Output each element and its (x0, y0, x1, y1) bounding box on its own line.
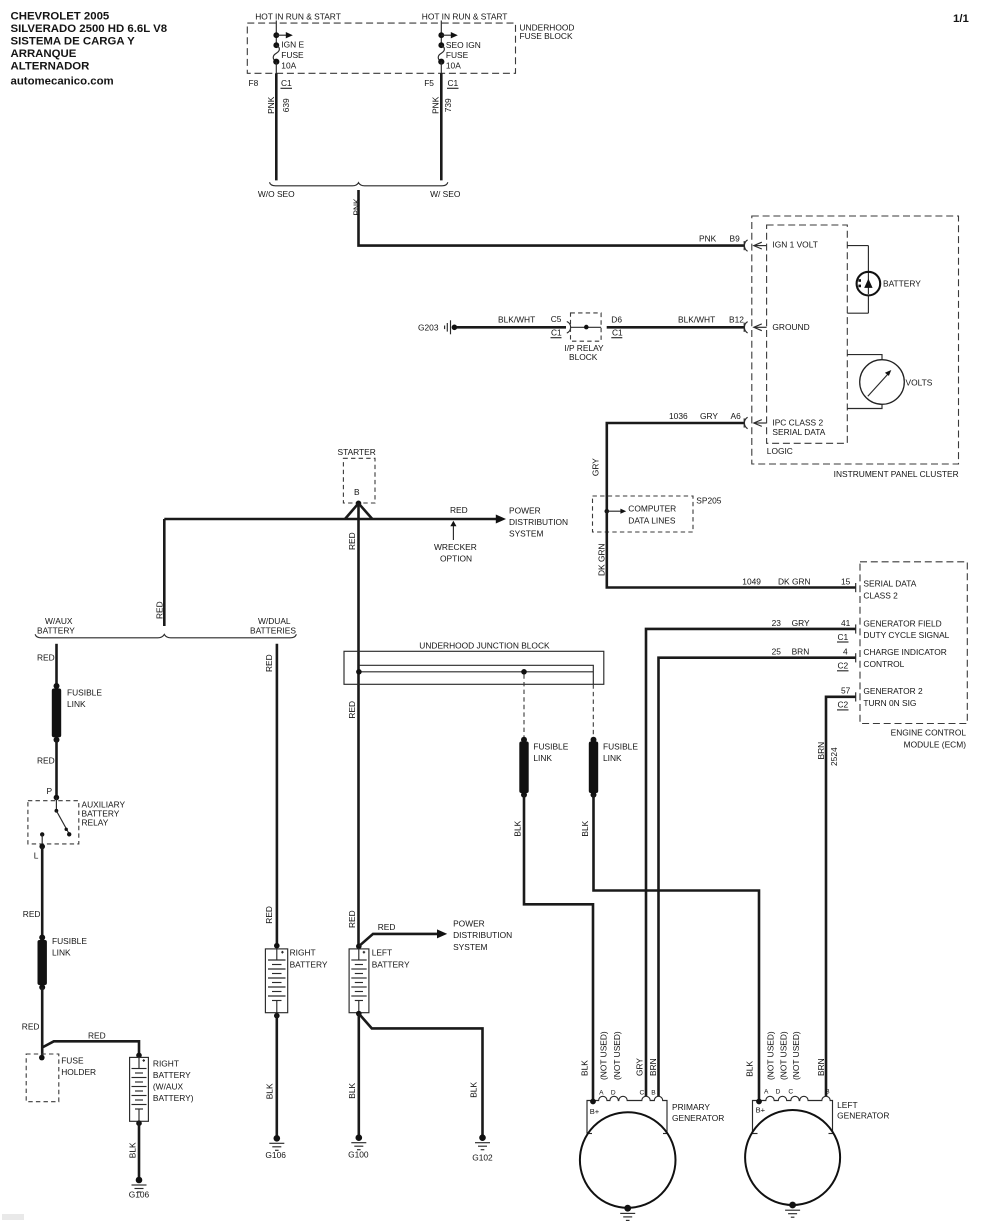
ECM pin 57 GENERATOR 2 TURN ON SIG (863, 686, 923, 708)
svg-text:DATA LINES: DATA LINES (628, 516, 676, 526)
svg-text:D6: D6 (611, 314, 622, 324)
svg-text:FUSIBLE: FUSIBLE (603, 742, 638, 752)
svg-text:B+: B+ (590, 1107, 600, 1116)
svg-text:FUSIBLE: FUSIBLE (533, 742, 568, 752)
svg-text:SISTEMA DE CARGA Y: SISTEMA DE CARGA Y (11, 36, 136, 48)
wire RED left branch down (37, 644, 57, 686)
svg-text:VOLTS: VOLTS (906, 378, 933, 388)
wrecker option callout (434, 521, 477, 564)
svg-text:G106: G106 (265, 1150, 286, 1160)
svg-text:automecanico.com: automecanico.com (11, 76, 114, 88)
svg-text:G106: G106 (129, 1190, 150, 1200)
svg-text:PRIMARY: PRIMARY (672, 1102, 710, 1112)
svg-text:RED: RED (88, 1031, 106, 1041)
svg-text:RELAY: RELAY (82, 818, 109, 828)
svg-text:G100: G100 (348, 1150, 369, 1160)
ECM pin 15 SERIAL DATA CLASS 2 (863, 579, 916, 601)
svg-text:C1: C1 (612, 327, 623, 337)
svg-text:MODULE (ECM): MODULE (ECM) (904, 740, 967, 750)
connector F8 C1 (249, 78, 293, 88)
svg-text:BRN: BRN (792, 647, 810, 657)
ground G106 (right column) (265, 1135, 286, 1160)
svg-text:FUSE: FUSE (281, 50, 304, 60)
left generator wire labels (766, 1031, 827, 1080)
pin IPC CLASS 2 SERIAL DATA (772, 418, 825, 437)
options bracket W/O SEO | W/ SEO (258, 182, 461, 199)
svg-text:C1: C1 (448, 78, 459, 88)
svg-text:BATTERY: BATTERY (883, 279, 921, 289)
svg-text:B: B (825, 1088, 830, 1095)
ground G102 (472, 1134, 493, 1162)
svg-text:C2: C2 (838, 700, 849, 710)
svg-text:LINK: LINK (533, 753, 552, 763)
svg-text:W/O SEO: W/O SEO (258, 189, 295, 199)
svg-text:FUSE: FUSE (61, 1056, 84, 1066)
options bracket W/AUX BATTERY | W/DUAL BATTERIES (35, 616, 296, 638)
right battery (w/aux battery) (130, 1053, 194, 1122)
svg-text:(NOT USED): (NOT USED) (791, 1031, 801, 1080)
svg-text:RED: RED (37, 653, 55, 663)
ground G100 (348, 1134, 369, 1159)
svg-text:BRN: BRN (816, 742, 826, 760)
wire RED relay to fusible link 2 (23, 847, 42, 938)
svg-text:RIGHT: RIGHT (153, 1059, 179, 1069)
svg-text:BATTERY: BATTERY (372, 959, 410, 969)
svg-text:B12: B12 (729, 315, 744, 325)
svg-text:GRY: GRY (792, 618, 810, 628)
auxiliary battery relay (28, 798, 126, 847)
wire 23 GRY to ECM pin 41 C1 (646, 618, 856, 1097)
svg-text:BATTERY: BATTERY (153, 1070, 191, 1080)
svg-text:BATTERY: BATTERY (37, 626, 75, 636)
svg-text:(NOT USED): (NOT USED) (778, 1031, 788, 1080)
svg-text:RED: RED (37, 756, 55, 766)
svg-text:LEFT: LEFT (372, 948, 392, 958)
dashed feed to fusible link 3 (523, 674, 525, 737)
svg-text:SYSTEM: SYSTEM (453, 942, 487, 952)
svg-text:ALTERNADOR: ALTERNADOR (11, 61, 90, 73)
ECM box (dashed) (860, 562, 967, 750)
svg-text:CLASS 2: CLASS 2 (863, 591, 898, 601)
wire RED starter down (center column) (347, 503, 359, 946)
svg-text:B9: B9 (730, 234, 741, 244)
svg-text:BLOCK: BLOCK (569, 352, 598, 362)
svg-text:23: 23 (772, 618, 782, 628)
svg-text:COMPUTER: COMPUTER (628, 504, 676, 514)
svg-text:PNK: PNK (351, 198, 361, 216)
wire BLK fusible link 3 to primary generator (512, 795, 593, 1102)
svg-text:639: 639 (281, 98, 291, 112)
svg-text:(NOT USED): (NOT USED) (766, 1031, 776, 1080)
primary generator case ground (620, 1205, 635, 1221)
svg-text:PNK: PNK (699, 234, 717, 244)
svg-text:C2: C2 (838, 661, 849, 671)
svg-text:CONTROL: CONTROL (863, 659, 904, 669)
svg-text:SILVERADO 2500 HD 6.6L V8: SILVERADO 2500 HD 6.6L V8 (11, 23, 168, 35)
svg-text:A: A (764, 1088, 769, 1095)
svg-text:C5: C5 (551, 314, 562, 324)
fusible link 3 (519, 737, 568, 798)
svg-text:C: C (788, 1088, 793, 1095)
svg-text:FUSE: FUSE (446, 50, 469, 60)
svg-text:UNDERHOOD JUNCTION BLOCK: UNDERHOOD JUNCTION BLOCK (419, 640, 550, 650)
svg-text:SERIAL DATA: SERIAL DATA (863, 579, 916, 589)
wire RED branch to right battery (w/aux) (42, 1031, 139, 1056)
wire BLK to ground G106 (right column) (264, 1013, 279, 1139)
svg-text:FUSIBLE: FUSIBLE (52, 936, 87, 946)
svg-text:G102: G102 (472, 1153, 493, 1163)
svg-text:LEFT: LEFT (837, 1100, 857, 1110)
wire RED branch to options bracket (155, 519, 165, 626)
svg-text:RIGHT: RIGHT (290, 948, 316, 958)
svg-text:RED: RED (378, 922, 396, 932)
svg-text:GENERATOR: GENERATOR (672, 1113, 724, 1123)
svg-text:BLK: BLK (469, 1082, 479, 1098)
svg-text:F5: F5 (424, 78, 434, 88)
svg-text:B: B (354, 487, 360, 497)
svg-text:CHEVROLET 2005: CHEVROLET 2005 (11, 10, 110, 22)
svg-text:2524: 2524 (829, 747, 839, 766)
svg-text:HOT IN RUN & START: HOT IN RUN & START (422, 11, 508, 21)
svg-text:FUSE BLOCK: FUSE BLOCK (520, 31, 573, 41)
svg-text:BLK: BLK (580, 820, 590, 836)
ground G203 (418, 320, 457, 334)
wire BRN 2524 to ECM pin 57 C2 (816, 686, 856, 1097)
svg-text:CHARGE INDICATOR: CHARGE INDICATOR (863, 647, 946, 657)
primary generator (580, 1089, 724, 1207)
svg-text:57: 57 (841, 686, 851, 696)
wire RED to power distribution system (lower) (359, 922, 447, 946)
svg-text:BLK: BLK (512, 820, 522, 836)
left generator (745, 1088, 889, 1205)
dashed feed to fusible link 4 (592, 684, 594, 737)
pin entry symbol A6 (744, 417, 766, 428)
svg-text:DUTY CYCLE SIGNAL: DUTY CYCLE SIGNAL (863, 630, 949, 640)
svg-text:F8: F8 (249, 78, 259, 88)
wire PNK 739 (right fuse down) (431, 73, 453, 180)
svg-text:IGN 1 VOLT: IGN 1 VOLT (772, 239, 817, 249)
wire PNK to IPC pin B9 (351, 190, 744, 246)
wire PNK 639 (left fuse down) (266, 73, 291, 180)
svg-text:DK GRN: DK GRN (597, 543, 607, 576)
ground G106 (left) (129, 1177, 150, 1200)
svg-text:INSTRUMENT PANEL CLUSTER: INSTRUMENT PANEL CLUSTER (834, 469, 959, 479)
svg-text:GENERATOR 2: GENERATOR 2 (863, 686, 923, 696)
svg-text:SYSTEM: SYSTEM (509, 529, 543, 539)
svg-text:GRY: GRY (700, 411, 718, 421)
svg-text:(NOT USED): (NOT USED) (612, 1031, 622, 1080)
svg-text:DK GRN: DK GRN (778, 576, 811, 586)
wire RED fusible link 2 to fuse holder (22, 987, 42, 1057)
connector F5 C1 (424, 78, 458, 88)
svg-text:4: 4 (843, 647, 848, 657)
svg-text:25: 25 (772, 647, 782, 657)
wire BLK to ground G102 (359, 1014, 483, 1138)
underhood fuse block (dashed box) (247, 23, 574, 74)
fuse holder (dashed box) (26, 1054, 96, 1102)
svg-text:FUSIBLE: FUSIBLE (67, 688, 102, 698)
wire 1036 GRY to IPC pin A6 (590, 411, 744, 511)
svg-text:RED: RED (155, 601, 165, 619)
svg-text:PNK: PNK (431, 96, 441, 114)
svg-text:BLK: BLK (580, 1060, 590, 1076)
svg-text:SEO IGN: SEO IGN (446, 40, 481, 50)
svg-text:D: D (611, 1089, 616, 1096)
svg-text:W/ SEO: W/ SEO (430, 189, 461, 199)
label power distribution system (lower) (453, 919, 512, 952)
left generator case ground (785, 1202, 800, 1218)
svg-text:BLK/WHT: BLK/WHT (678, 315, 715, 325)
svg-text:PNK: PNK (266, 96, 276, 114)
wire BLK to ground G106 (left) (127, 1120, 141, 1180)
svg-text:IGN E: IGN E (281, 40, 304, 50)
svg-text:BATTERIES: BATTERIES (250, 626, 296, 636)
svg-text:1036: 1036 (669, 411, 688, 421)
svg-text:LINK: LINK (52, 948, 71, 958)
wire RED starter to power distribution system (164, 503, 506, 523)
title text block (11, 10, 168, 87)
svg-text:1049: 1049 (742, 576, 761, 586)
relay pin L (34, 844, 45, 861)
svg-text:LOGIC: LOGIC (767, 446, 793, 456)
svg-text:BLK/WHT: BLK/WHT (498, 314, 535, 324)
svg-text:41: 41 (841, 618, 851, 628)
svg-text:GENERATOR: GENERATOR (837, 1111, 889, 1121)
svg-text:10A: 10A (281, 60, 296, 70)
svg-text:B: B (651, 1089, 656, 1096)
svg-text:RED: RED (347, 910, 357, 928)
svg-text:RED: RED (23, 909, 41, 919)
svg-text:BLK: BLK (127, 1142, 137, 1158)
wire BLK/WHT to IPC pin B12 (607, 315, 745, 328)
svg-text:(W/AUX: (W/AUX (153, 1082, 184, 1092)
fusible link 2 (38, 935, 88, 991)
svg-text:C: C (640, 1089, 645, 1096)
svg-text:LINK: LINK (603, 753, 622, 763)
svg-text:A: A (599, 1089, 604, 1096)
fuse SEO IGN 10A (438, 21, 481, 74)
volts gauge (847, 355, 932, 409)
splice SP205 computer data lines (593, 495, 722, 532)
right battery (265, 943, 327, 1013)
faint corner smudge (2, 1214, 24, 1220)
svg-text:ENGINE CONTROL: ENGINE CONTROL (891, 728, 967, 738)
svg-text:(NOT USED): (NOT USED) (599, 1031, 609, 1080)
wire 25 BRN to ECM pin 4 C2 (659, 647, 856, 1097)
svg-text:RED: RED (347, 532, 357, 550)
primary generator wire labels (599, 1031, 659, 1080)
svg-text:OPTION: OPTION (440, 554, 472, 564)
svg-text:RED: RED (264, 906, 274, 924)
svg-text:HOLDER: HOLDER (61, 1067, 96, 1077)
svg-text:BRN: BRN (816, 1058, 826, 1076)
underhood junction block (344, 640, 604, 684)
svg-text:HOT IN RUN & START: HOT IN RUN & START (255, 11, 341, 21)
svg-text:DISTRIBUTION: DISTRIBUTION (509, 517, 568, 527)
svg-text:B+: B+ (756, 1106, 766, 1115)
svg-text:BLK: BLK (745, 1061, 755, 1077)
battery telltale indicator (847, 246, 921, 314)
starter (dashed box) (338, 447, 376, 506)
wire RED w/dual batteries branch (264, 644, 277, 946)
svg-text:POWER: POWER (509, 506, 541, 516)
svg-text:C1: C1 (838, 632, 849, 642)
svg-text:1/1: 1/1 (953, 13, 969, 25)
svg-text:TURN 0N SIG: TURN 0N SIG (863, 698, 916, 708)
svg-text:STARTER: STARTER (338, 447, 376, 457)
svg-text:RED: RED (22, 1022, 40, 1032)
svg-text:C1: C1 (281, 78, 292, 88)
fuse IGN E 10A (273, 21, 304, 74)
svg-text:ARRANQUE: ARRANQUE (11, 48, 77, 60)
svg-text:15: 15 (841, 576, 851, 586)
I/P relay block (564, 313, 623, 362)
svg-text:BATTERY): BATTERY) (153, 1093, 194, 1103)
instrument panel cluster (dashed box) (752, 216, 959, 479)
svg-text:10A: 10A (446, 60, 461, 70)
wire BLK fusible link 4 to left generator (580, 795, 759, 1102)
left battery (349, 944, 410, 1013)
svg-text:GENERATOR FIELD: GENERATOR FIELD (863, 618, 941, 628)
svg-text:RED: RED (347, 701, 357, 719)
wire BLK/WHT G203 to connector C5 (457, 314, 571, 338)
svg-text:739: 739 (443, 98, 453, 112)
svg-text:GROUND: GROUND (772, 322, 809, 332)
svg-text:W/AUX: W/AUX (45, 616, 73, 626)
svg-text:BLK: BLK (264, 1083, 274, 1099)
svg-text:LINK: LINK (67, 699, 86, 709)
pin entry symbol B12 (744, 322, 766, 333)
svg-text:POWER: POWER (453, 919, 485, 929)
ECM pin 4 CHARGE INDICATOR CONTROL (863, 647, 946, 669)
svg-text:BATTERY: BATTERY (290, 959, 328, 969)
wire RED to relay pin P (37, 740, 59, 801)
svg-text:C1: C1 (551, 327, 562, 337)
ECM pin 41 GENERATOR FIELD DUTY CYCLE SIGNAL (863, 618, 949, 640)
svg-text:RED: RED (264, 654, 274, 672)
logic box (dashed) (767, 225, 848, 456)
wire BLK to ground G100 (347, 1011, 362, 1138)
label power distribution system (upper) (509, 506, 568, 539)
svg-text:BLK: BLK (347, 1082, 357, 1098)
fusible link 1 (52, 683, 103, 743)
svg-text:SERIAL DATA: SERIAL DATA (772, 427, 825, 437)
svg-text:RED: RED (450, 505, 468, 515)
svg-text:GRY: GRY (590, 458, 600, 476)
svg-text:A6: A6 (731, 411, 742, 421)
svg-text:GRY: GRY (634, 1058, 644, 1076)
pin entry symbol B9 (744, 240, 766, 251)
svg-text:SP205: SP205 (696, 495, 721, 505)
svg-text:D: D (776, 1088, 781, 1095)
svg-text:BRN: BRN (648, 1058, 658, 1076)
svg-text:G203: G203 (418, 323, 439, 333)
svg-text:P: P (47, 786, 53, 796)
wire DK GRN 1049 to ECM pin 15 (597, 511, 856, 592)
svg-text:WRECKER: WRECKER (434, 542, 477, 552)
svg-text:DISTRIBUTION: DISTRIBUTION (453, 930, 512, 940)
svg-text:L: L (34, 851, 39, 861)
svg-text:W/DUAL: W/DUAL (258, 616, 291, 626)
fusible link 4 (589, 737, 639, 798)
